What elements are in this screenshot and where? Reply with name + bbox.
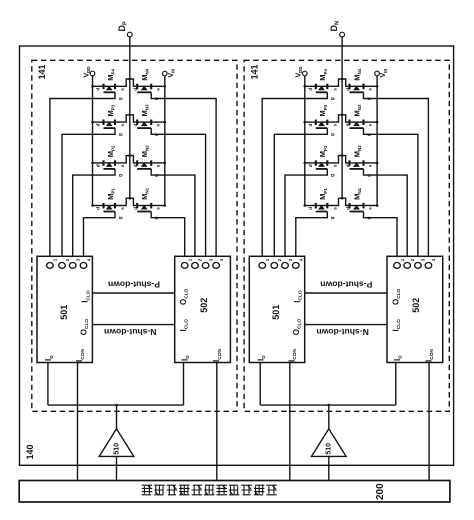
wire gate MN1 xyxy=(151,212,185,257)
transistor MN1 (left) xyxy=(137,203,165,212)
svg-text:140: 140 xyxy=(25,444,35,459)
svg-text:d: d xyxy=(96,124,102,127)
svg-text:d: d xyxy=(133,164,139,167)
junction dot Id bus tap (right) xyxy=(327,404,330,407)
svg-text:d: d xyxy=(133,124,139,127)
svg-text:s: s xyxy=(156,88,161,91)
wire source MP2 to mid rail xyxy=(115,156,130,163)
junction dot MN3 source xyxy=(376,121,379,124)
svg-text:d: d xyxy=(345,164,351,167)
wire Icon 501 to logic (left) xyxy=(77,363,79,481)
junction dot MN4 source xyxy=(164,85,167,88)
wire gate MP1 xyxy=(296,212,328,257)
pin bubble 502 pin 1 (right) xyxy=(394,263,401,269)
Vm terminal (left) xyxy=(163,71,168,76)
dashed box 141 (right) xyxy=(244,60,449,411)
pin bubble 502 pin 2 (right) xyxy=(404,263,411,269)
svg-text:N-shut-down: N-shut-down xyxy=(104,327,157,337)
svg-text:g: g xyxy=(331,174,336,177)
transistor MN1 (right) xyxy=(350,203,378,212)
outer box 140 xyxy=(20,46,454,465)
junction dot MP4 drain xyxy=(91,85,94,88)
transistor MP4 (right) xyxy=(305,84,328,93)
Vm rail (right) xyxy=(376,76,378,206)
wire gate MN4 xyxy=(364,92,429,256)
svg-text:502: 502 xyxy=(411,298,421,313)
junction dot MP3 drain xyxy=(304,121,307,124)
transistor MP3 (right) xyxy=(305,120,328,129)
svg-text:501: 501 xyxy=(59,305,69,320)
svg-text:g: g xyxy=(331,133,336,136)
svg-text:s: s xyxy=(156,207,161,210)
svg-text:s: s xyxy=(369,124,374,127)
wire drain MN1 to mid rail xyxy=(130,198,137,205)
wire Id 502 down (left) xyxy=(183,363,185,406)
pin bubble 501 pin 1 (left) xyxy=(47,263,54,269)
svg-text:g: g xyxy=(331,217,336,220)
svg-text:s: s xyxy=(156,164,161,167)
wire gate MP2 xyxy=(285,169,327,256)
svg-text:d: d xyxy=(96,88,102,91)
wire gate MN2 xyxy=(364,169,408,256)
wire source MP1 to mid rail xyxy=(115,198,130,205)
wire drain MN3 to mid rail xyxy=(342,115,349,122)
junction dot MN2 source xyxy=(164,162,167,165)
block 501 (left) xyxy=(37,256,92,362)
wire gate MP1 xyxy=(84,212,116,257)
Vdd rail (left) xyxy=(92,76,94,206)
wire drain MN2 to mid rail xyxy=(342,156,349,163)
pin bubble 501 pin 2 (left) xyxy=(59,263,66,269)
svg-text:s: s xyxy=(334,124,339,127)
svg-text:d: d xyxy=(308,88,314,91)
wire source MP4 to mid rail xyxy=(115,79,130,86)
wire N-shut-down (left) xyxy=(92,324,174,326)
junction dot MN2 source xyxy=(376,162,379,165)
svg-text:s: s xyxy=(121,124,126,127)
svg-text:s: s xyxy=(121,164,126,167)
junction dot MP1 drain xyxy=(91,204,94,207)
junction dot MP4 drain xyxy=(304,85,307,88)
wire drain MN4 to mid rail xyxy=(342,79,349,86)
transistor MN3 (left) xyxy=(137,120,165,129)
junction dot mid rail row 2 (right) xyxy=(341,114,344,117)
svg-text:N-shut-down: N-shut-down xyxy=(316,327,369,337)
wire drain MN2 to mid rail xyxy=(130,156,137,163)
svg-text:d: d xyxy=(308,164,314,167)
pin bubble 502 pin 3 (left) xyxy=(202,263,209,269)
dashed box 141 (left) xyxy=(32,60,237,411)
wire source MP3 to mid rail xyxy=(327,115,342,122)
Vdd terminal (right) xyxy=(303,71,308,76)
buffer 510 (left) xyxy=(99,429,134,457)
svg-text:d: d xyxy=(345,88,351,91)
svg-text:s: s xyxy=(334,207,339,210)
junction dot Id bus tap (left) xyxy=(115,404,118,407)
junction dot mid rail row 4 (right) xyxy=(341,197,344,200)
svg-text:d: d xyxy=(133,88,139,91)
junction dot mid rail row 3 (right) xyxy=(341,154,344,157)
label channel-control-and-interface-logic text xyxy=(142,485,276,495)
svg-text:141: 141 xyxy=(249,64,259,79)
wire gate MP4 xyxy=(262,92,327,256)
wire source MP4 to mid rail xyxy=(327,79,342,86)
pin bubble 502 pin 4 (left) xyxy=(213,263,220,269)
wire drain MN3 to mid rail xyxy=(130,115,137,122)
svg-text:502: 502 xyxy=(199,298,209,313)
wire Id bus (left) xyxy=(48,404,184,406)
wire Id 501 down (left) xyxy=(47,363,49,406)
svg-text:501: 501 xyxy=(271,305,281,320)
wire gate MP4 xyxy=(50,92,115,256)
junction dot mid rail row 4 (left) xyxy=(129,197,132,200)
junction dot mid rail row 3 (left) xyxy=(129,154,132,157)
transistor MP1 (right) xyxy=(305,203,328,212)
transistor MN4 (right) xyxy=(350,84,378,93)
junction dot MN3 source xyxy=(164,121,167,124)
svg-text:s: s xyxy=(334,88,339,91)
wire buffer output (right) xyxy=(328,456,330,480)
wire gate MP3 xyxy=(274,128,327,256)
Vdd terminal (left) xyxy=(90,71,95,76)
svg-text:d: d xyxy=(133,207,139,210)
transistor MP4 (left) xyxy=(93,84,116,93)
pin bubble 502 pin 1 (left) xyxy=(181,263,188,269)
terminal DP xyxy=(127,32,132,37)
junction dot MP2 drain xyxy=(304,162,307,165)
junction dot MN1 source xyxy=(164,204,167,207)
Vdd rail (right) xyxy=(304,76,306,206)
wire Id bus (right) xyxy=(260,404,396,406)
block 501 (right) xyxy=(249,256,304,362)
svg-text:g: g xyxy=(331,97,336,100)
svg-text:141: 141 xyxy=(37,64,47,79)
pin bubble 502 pin 4 (right) xyxy=(425,263,432,269)
block 502 (left) xyxy=(175,256,231,362)
junction dot mid rail row 1 (right) xyxy=(341,78,344,81)
transistor MN4 (left) xyxy=(137,84,165,93)
wire DP to mid rail xyxy=(129,37,131,198)
transistor MN2 (right) xyxy=(350,160,378,169)
svg-text:g: g xyxy=(118,217,123,220)
pin bubble 502 pin 3 (right) xyxy=(415,263,422,269)
pin bubble 502 pin 2 (left) xyxy=(192,263,199,269)
junction dot MP1 drain xyxy=(304,204,307,207)
terminal DN xyxy=(340,32,345,37)
junction dot MN4 source xyxy=(376,85,379,88)
wire buffer output (left) xyxy=(116,456,118,480)
svg-text:g: g xyxy=(118,97,123,100)
svg-text:s: s xyxy=(156,124,161,127)
svg-text:P-shut-down: P-shut-down xyxy=(108,280,160,290)
wire N-shut-down (right) xyxy=(305,324,387,326)
pin bubble 501 pin 4 (right) xyxy=(293,263,300,269)
svg-text:d: d xyxy=(96,207,102,210)
svg-text:d: d xyxy=(96,164,102,167)
wire gate MP3 xyxy=(62,128,115,256)
svg-text:200: 200 xyxy=(375,483,386,500)
pin bubble 501 pin 3 (right) xyxy=(282,263,289,269)
svg-text:s: s xyxy=(121,88,126,91)
svg-text:d: d xyxy=(345,207,351,210)
wire buffer input (left) xyxy=(116,405,118,429)
Vm rail (left) xyxy=(164,76,166,206)
wire source MP2 to mid rail xyxy=(327,156,342,163)
wire gate MP2 xyxy=(73,169,115,256)
module box 200 (channel control and interface logic) xyxy=(19,481,450,503)
svg-text:d: d xyxy=(308,207,314,210)
transistor MP2 (right) xyxy=(305,160,328,169)
wire gate MN3 xyxy=(151,128,205,256)
buffer 510 (right) xyxy=(312,429,347,457)
Vm terminal (right) xyxy=(375,71,380,76)
junction dot mid rail row 1 (left) xyxy=(129,78,132,81)
svg-text:s: s xyxy=(369,207,374,210)
wire buffer input (right) xyxy=(328,405,330,429)
junction dot MP2 drain xyxy=(91,162,94,165)
transistor MP2 (left) xyxy=(93,160,116,169)
wire drain MN4 to mid rail xyxy=(130,79,137,86)
wire gate MN3 xyxy=(364,128,418,256)
wire Id 502 down (right) xyxy=(395,363,397,406)
svg-text:s: s xyxy=(121,207,126,210)
wire drain MN1 to mid rail xyxy=(342,198,349,205)
wire source MP3 to mid rail xyxy=(115,115,130,122)
wire Icon 502 to logic (left) xyxy=(216,363,218,481)
svg-text:510: 510 xyxy=(113,443,120,455)
svg-text:g: g xyxy=(118,174,123,177)
junction dot MP3 drain xyxy=(91,121,94,124)
wire gate MN4 xyxy=(151,92,216,256)
wire source MP1 to mid rail xyxy=(327,198,342,205)
pin bubble 501 pin 1 (right) xyxy=(259,263,266,269)
transistor MN3 (right) xyxy=(350,120,378,129)
transistor MN2 (left) xyxy=(137,160,165,169)
wire gate MN2 xyxy=(151,169,195,256)
svg-text:d: d xyxy=(345,124,351,127)
transistor MP3 (left) xyxy=(93,120,116,129)
svg-text:P-shut-down: P-shut-down xyxy=(320,280,372,290)
junction dot MN1 source xyxy=(376,204,379,207)
svg-text:s: s xyxy=(369,88,374,91)
pin bubble 501 pin 4 (left) xyxy=(80,263,87,269)
svg-text:d: d xyxy=(308,124,314,127)
wire gate MN1 xyxy=(364,212,398,257)
svg-text:s: s xyxy=(369,164,374,167)
pin bubble 501 pin 3 (left) xyxy=(69,263,76,269)
wire Icon 501 to logic (right) xyxy=(289,363,291,481)
transistor MP1 (left) xyxy=(93,203,116,212)
wire P-shut-down (left) xyxy=(92,292,174,294)
wire Id 501 down (right) xyxy=(259,363,261,406)
svg-text:s: s xyxy=(334,164,339,167)
svg-text:510: 510 xyxy=(326,443,333,455)
wire P-shut-down (right) xyxy=(305,292,387,294)
junction dot mid rail row 2 (left) xyxy=(129,114,132,117)
block 502 (right) xyxy=(387,256,443,362)
wire Icon 502 to logic (right) xyxy=(428,363,430,481)
wire DN to mid rail xyxy=(341,37,343,198)
pin bubble 501 pin 2 (right) xyxy=(271,263,278,269)
svg-text:g: g xyxy=(118,133,123,136)
